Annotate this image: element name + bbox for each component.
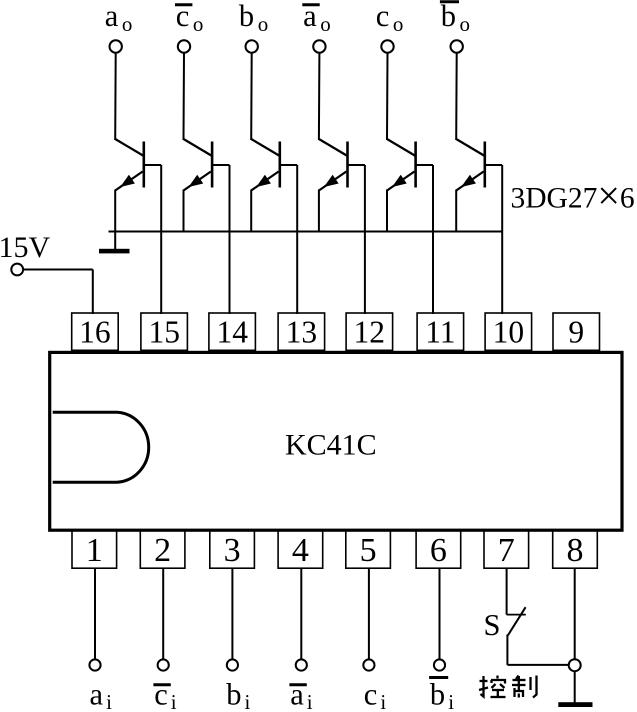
pin 7 box xyxy=(484,531,529,569)
wire emitter lead Q1 to common rail xyxy=(114,190,116,232)
power supply bar xyxy=(99,249,130,254)
wire base lead Q1 down to pin 15 xyxy=(144,165,161,314)
wire base lead Q6 down to pin 10 xyxy=(485,165,502,314)
svg-text:6: 6 xyxy=(430,532,447,569)
pin 10 box xyxy=(485,313,531,350)
svg-text:i: i xyxy=(171,690,177,712)
wire base lead Q5 down to pin 11 xyxy=(416,165,433,314)
node c_o output terminal label xyxy=(376,0,404,36)
svg-text:o: o xyxy=(393,12,404,36)
wire pin 7 to switch xyxy=(506,568,508,614)
terminal circle for output 3 xyxy=(246,40,258,52)
transistor Q6 (3DG27 NPN) xyxy=(456,139,485,191)
svg-text:i: i xyxy=(245,690,251,712)
terminal circle input 2 xyxy=(158,659,169,670)
svg-text:o: o xyxy=(122,12,132,36)
terminal circle for output 6 xyxy=(451,40,463,52)
terminal circle for output 5 xyxy=(381,40,393,52)
node bbar_o output terminal label xyxy=(440,0,470,36)
node a_o output terminal label xyxy=(105,0,133,36)
transistor Q3 (3DG27 NPN) xyxy=(251,139,280,191)
wire emitter lead Q6 to common rail xyxy=(455,190,457,232)
wire pin 4 to input terminal xyxy=(300,568,302,659)
wire emitter lead Q2 to common rail xyxy=(183,190,185,232)
pin 4 box xyxy=(278,531,323,569)
svg-text:a: a xyxy=(105,0,119,33)
pin 13 box xyxy=(278,313,325,350)
svg-text:o: o xyxy=(320,12,331,36)
node abar_i input terminal label xyxy=(289,678,312,712)
pin 15 box xyxy=(141,313,188,350)
wire pin 6 to input terminal xyxy=(439,568,441,659)
wire common emitter rail xyxy=(109,231,503,233)
pin 12 box xyxy=(346,313,393,350)
svg-text:14: 14 xyxy=(216,314,248,349)
node c_i input terminal label xyxy=(364,678,387,712)
transistor Q5 (3DG27 NPN) xyxy=(387,139,416,191)
node a_i input terminal label xyxy=(90,678,113,712)
svg-text:o: o xyxy=(460,12,471,36)
pin 3 box xyxy=(210,531,255,569)
svg-text:c: c xyxy=(376,0,390,33)
svg-text:o: o xyxy=(193,12,204,36)
svg-text:5: 5 xyxy=(360,532,377,569)
transistor Q4 (3DG27 NPN) xyxy=(319,139,348,191)
svg-text:c: c xyxy=(154,678,168,712)
svg-text:2: 2 xyxy=(154,532,171,569)
terminal circle for output 1 xyxy=(110,40,122,52)
label control (kongzhi) xyxy=(479,676,537,698)
svg-text:i: i xyxy=(106,690,112,712)
pin 1 box xyxy=(72,531,117,569)
wire collector lead Q6 xyxy=(455,53,458,140)
node cbar_i input terminal label xyxy=(153,678,176,712)
wire collector lead Q4 xyxy=(318,53,321,140)
pin 9 box xyxy=(553,313,600,350)
terminal circle input 5 xyxy=(363,659,374,670)
svg-text:13: 13 xyxy=(286,314,318,349)
terminal circle input 4 xyxy=(296,659,307,670)
wire emitter lead Q5 to common rail xyxy=(386,190,388,232)
node cbar_o output terminal label xyxy=(175,0,203,36)
pin 8 box xyxy=(553,531,598,569)
transistor Q1 (3DG27 NPN) xyxy=(115,139,144,191)
svg-text:a: a xyxy=(90,678,104,712)
wire pin 2 to input terminal xyxy=(162,568,164,659)
wire pin 5 to input terminal xyxy=(368,568,370,659)
wire pin 3 to input terminal xyxy=(231,568,233,659)
wire 15V to pin 16 xyxy=(23,270,93,315)
wire base lead Q3 down to pin 13 xyxy=(280,165,297,314)
wire base lead Q4 down to pin 12 xyxy=(348,165,365,314)
svg-text:i: i xyxy=(448,690,454,712)
svg-text:i: i xyxy=(380,690,386,712)
svg-text:11: 11 xyxy=(425,314,455,349)
svg-text:b: b xyxy=(226,678,241,712)
wire switch to junction xyxy=(507,635,568,665)
svg-text:7: 7 xyxy=(498,532,515,569)
svg-text:15V: 15V xyxy=(0,231,51,264)
IC orientation notch xyxy=(53,412,149,482)
switch S xyxy=(507,607,526,635)
wire collector lead Q2 xyxy=(183,53,186,140)
node bbar_i input terminal label xyxy=(429,678,454,712)
svg-text:S: S xyxy=(484,608,501,642)
svg-text:4: 4 xyxy=(292,532,309,569)
svg-text:b: b xyxy=(239,0,254,33)
wire emitter lead Q4 to common rail xyxy=(318,190,320,232)
pin 14 box xyxy=(209,313,256,350)
terminal circle input 3 xyxy=(227,659,238,670)
pin 2 box xyxy=(140,531,185,569)
wire collector lead Q1 xyxy=(114,53,117,140)
wire rail to supply bar xyxy=(114,232,116,250)
node b_i input terminal label xyxy=(226,678,250,712)
terminal circle for output 4 xyxy=(313,40,325,52)
terminal circle input 1 xyxy=(89,659,100,670)
svg-text:o: o xyxy=(258,12,269,36)
ground xyxy=(558,702,592,707)
wire circle to ground bar xyxy=(574,671,576,702)
terminal circle for output 2 xyxy=(178,40,190,52)
svg-text:8: 8 xyxy=(567,532,584,569)
svg-text:KC41C: KC41C xyxy=(285,429,377,462)
svg-text:1: 1 xyxy=(86,532,103,569)
wire collector lead Q5 xyxy=(386,53,389,140)
svg-text:b: b xyxy=(441,0,456,33)
svg-text:a: a xyxy=(290,678,304,712)
svg-text:3: 3 xyxy=(224,532,241,569)
op-amp U1 KC41C IC body xyxy=(50,352,622,530)
pin 16 box xyxy=(72,313,119,350)
svg-text:3DG27×6: 3DG27×6 xyxy=(511,173,635,218)
svg-text:16: 16 xyxy=(79,314,111,349)
transistor Q2 (3DG27 NPN) xyxy=(184,139,213,191)
svg-text:12: 12 xyxy=(354,314,386,349)
node abar_o output terminal label xyxy=(302,0,330,36)
svg-text:15: 15 xyxy=(148,314,180,349)
wire pin 8 down to ground xyxy=(574,568,576,659)
wire emitter lead Q3 to common rail xyxy=(250,190,252,232)
svg-text:i: i xyxy=(307,690,313,712)
pin 11 box xyxy=(417,313,464,350)
wire collector lead Q3 xyxy=(250,53,253,140)
terminal circle input 6 xyxy=(434,659,445,670)
pin 6 box xyxy=(416,531,461,569)
svg-text:c: c xyxy=(364,678,378,712)
wire base lead Q2 down to pin 14 xyxy=(212,165,229,314)
wire pin 1 to input terminal xyxy=(94,568,96,659)
junction terminal circle xyxy=(569,659,581,671)
terminal circle 15V xyxy=(11,264,23,276)
pin 5 box xyxy=(346,531,391,569)
svg-text:9: 9 xyxy=(568,314,584,349)
node b_o output terminal label xyxy=(239,0,268,36)
svg-text:b: b xyxy=(430,678,445,712)
svg-text:10: 10 xyxy=(493,314,525,349)
